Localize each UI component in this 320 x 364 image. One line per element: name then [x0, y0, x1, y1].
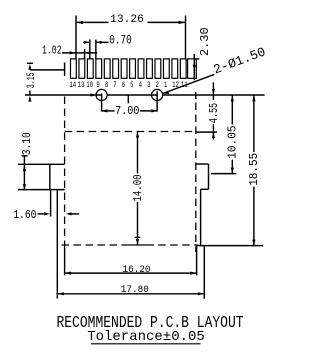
left notch / tab — [18, 164, 65, 298]
svg-text:3: 3 — [147, 81, 150, 90]
right notch / tab — [196, 164, 209, 299]
right edge stub at centerline — [195, 92, 197, 99]
svg-text:6: 6 — [122, 81, 125, 90]
svg-text:14: 14 — [69, 81, 76, 90]
dimension 1.60 — [13, 209, 79, 222]
dimension 7.00 — [102, 96, 158, 119]
svg-text:1: 1 — [164, 81, 167, 90]
dimension 0.70 — [83, 34, 131, 59]
extension lines for 16.20 — [64, 248, 66, 275]
pin numbers — [69, 81, 187, 90]
pad row: 14 pads — [71, 59, 187, 78]
svg-text:2-Ø1.50: 2-Ø1.50 — [211, 44, 267, 77]
hole circle 2 — [152, 89, 163, 100]
dimension 10.05 — [211, 95, 240, 174]
leader 2-Ø1.50 — [163, 44, 268, 94]
svg-text:1.60: 1.60 — [13, 209, 36, 222]
svg-text:10.05: 10.05 — [226, 125, 239, 159]
dimension 1.02 — [42, 44, 97, 59]
long horizontal line through holes — [25, 94, 102, 96]
svg-text:13.26: 13.26 — [110, 14, 144, 26]
svg-text:7.00: 7.00 — [115, 105, 139, 118]
svg-text:8: 8 — [105, 81, 108, 90]
wide reference pad box + 2.30 dimension — [188, 27, 213, 80]
svg-text:10: 10 — [86, 81, 93, 90]
dimension 3.10 — [21, 132, 34, 190]
svg-text:16.20: 16.20 — [122, 263, 150, 275]
dimension 3.15 left — [24, 63, 65, 102]
svg-text:7: 7 — [113, 81, 116, 90]
dimension 17.80 — [57, 283, 204, 295]
dashed bottom edge of body — [62, 244, 199, 246]
hole circle 1 — [96, 89, 107, 100]
svg-text:0.70: 0.70 — [109, 34, 131, 48]
svg-text:1.02: 1.02 — [42, 44, 62, 58]
svg-text:9: 9 — [96, 81, 99, 90]
svg-text:3.10: 3.10 — [21, 132, 34, 155]
svg-text:13: 13 — [78, 81, 85, 90]
svg-text:14.00: 14.00 — [132, 175, 146, 202]
svg-text:3.15: 3.15 — [24, 72, 37, 88]
dimension 4.55 — [196, 82, 222, 139]
svg-text:18.55: 18.55 — [248, 153, 262, 186]
svg-text:5: 5 — [130, 81, 133, 90]
dimension 16.20 — [65, 263, 197, 275]
dimension 18.55 — [197, 95, 264, 246]
dashed body outline — [65, 97, 196, 253]
arrowhead at hole 1 — [91, 93, 97, 96]
svg-text:2.30: 2.30 — [198, 27, 212, 56]
dimension 14.00 — [132, 132, 146, 246]
svg-text:4.55: 4.55 — [208, 103, 222, 123]
dimension 13.26 top — [76, 14, 186, 59]
svg-text:Tolerance±0.05: Tolerance±0.05 — [87, 329, 205, 345]
svg-text:4: 4 — [139, 81, 142, 90]
svg-text:17.80: 17.80 — [121, 283, 149, 295]
